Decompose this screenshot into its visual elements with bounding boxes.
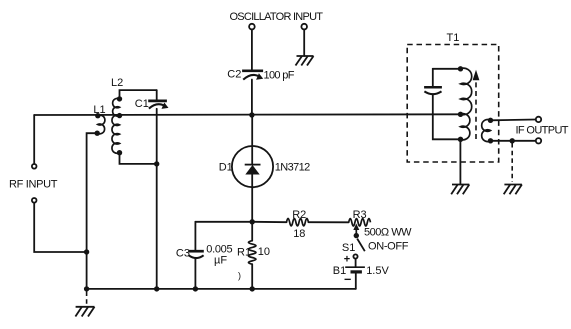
junction L1 top on main line xyxy=(95,113,100,118)
junction T1 primary tap xyxy=(458,112,463,117)
junction ground rail left xyxy=(84,286,89,291)
svg-text:1.5V: 1.5V xyxy=(366,265,389,277)
svg-text:µF: µF xyxy=(214,254,227,266)
ground (oscillator input) xyxy=(296,56,314,66)
junction L1 bottom xyxy=(95,131,100,136)
switch S1 blade xyxy=(357,239,365,252)
wire IF output top xyxy=(491,119,536,122)
wire ground rail bottom xyxy=(87,288,356,290)
diode D1 xyxy=(232,146,273,187)
junction ground rail at C1 branch xyxy=(154,286,159,291)
svg-text:S1: S1 xyxy=(342,242,355,254)
wire C1 top stub xyxy=(156,90,158,100)
wire T1 top horizontal xyxy=(433,68,461,70)
R3 wiper arrow xyxy=(355,228,357,236)
junction T1 primary bottom xyxy=(458,137,463,142)
junction C2 / D1 / main line node xyxy=(249,112,254,117)
svg-text:C3: C3 xyxy=(176,247,190,259)
resistor R3 rheostat xyxy=(349,219,371,227)
wire L2 bottom stub xyxy=(120,153,157,164)
T1 capacitor xyxy=(424,87,442,94)
wire T1 cap branch bottom xyxy=(433,95,461,139)
junction T1 primary top xyxy=(458,66,463,71)
svg-text:R1: R1 xyxy=(237,246,251,258)
svg-text:D1: D1 xyxy=(219,162,233,174)
junction T1 secondary top xyxy=(488,118,493,123)
svg-text:1N3712: 1N3712 xyxy=(275,162,311,174)
svg-text:R3: R3 xyxy=(353,209,367,221)
terminal IF output bottom xyxy=(536,138,541,143)
junction L2 bottom xyxy=(117,150,122,155)
svg-text:18: 18 xyxy=(293,228,305,240)
wire C1 branch lower xyxy=(156,109,158,164)
T1 tuning arrow dashed xyxy=(475,80,477,139)
wire node D1/R2/C3 horizontal xyxy=(195,221,252,223)
wire L2 top stub xyxy=(120,90,157,99)
ground (T1 primary) xyxy=(451,185,469,195)
svg-text:10: 10 xyxy=(258,246,270,258)
svg-text:L1: L1 xyxy=(93,104,105,116)
wire D1 bottom lead xyxy=(251,175,253,222)
wire D1 top lead xyxy=(251,115,253,165)
resistor R2 xyxy=(287,218,309,226)
resistor R1 xyxy=(248,241,256,265)
junction L2 tap on main line xyxy=(117,113,122,118)
svg-text:L2: L2 xyxy=(111,77,123,89)
wire R1 bottom lead xyxy=(251,264,253,289)
junction ground rail at C3 xyxy=(193,286,198,291)
terminal oscillator input ground xyxy=(301,24,307,30)
junction T1 secondary bottom xyxy=(488,138,493,143)
wire RF input top riser xyxy=(33,115,35,163)
wire R1 top lead xyxy=(251,222,253,241)
svg-text:OSCILLATOR INPUT: OSCILLATOR INPUT xyxy=(230,11,324,23)
wire S1 to B1 xyxy=(355,259,357,267)
svg-text:+: + xyxy=(344,254,350,266)
wire T1 cap branch top xyxy=(432,69,434,87)
T1 primary coil xyxy=(461,68,472,140)
junction RF input return xyxy=(84,249,89,254)
svg-text:): ) xyxy=(238,271,241,281)
svg-text:IF OUTPUT: IF OUTPUT xyxy=(516,125,569,137)
svg-text:T1: T1 xyxy=(447,32,460,44)
wire IF output bottom xyxy=(491,140,536,142)
junction IF output ground tie xyxy=(510,138,515,143)
wire L1 bottom to ground rail vertical xyxy=(87,133,98,289)
svg-text:500Ω WW: 500Ω WW xyxy=(364,226,412,238)
wire T1 primary ground lead xyxy=(459,139,461,184)
svg-text:ON-OFF: ON-OFF xyxy=(368,240,409,252)
svg-text:100 pF: 100 pF xyxy=(264,70,295,82)
terminal oscillator input xyxy=(249,24,255,30)
ground (left, chassis via dashed) xyxy=(86,292,88,305)
capacitor C3 xyxy=(189,251,204,258)
wire C1 branch to rail xyxy=(156,164,158,289)
transformer T1 dashed box xyxy=(407,45,499,163)
svg-text:C1: C1 xyxy=(135,98,149,110)
T1 secondary coil xyxy=(482,120,491,142)
junction R3 wiper / S1 node xyxy=(354,233,359,238)
inductor L1 xyxy=(97,115,105,134)
wire oscillator input lead xyxy=(251,30,253,70)
wire oscillator ground lead xyxy=(303,30,305,56)
capacitor C2 xyxy=(242,71,263,80)
capacitor C1 xyxy=(148,101,167,109)
wire main horizontal line RF/L1/L2/C2/T1 node xyxy=(34,113,460,116)
terminal RF input bottom xyxy=(32,198,37,203)
junction D1 anode / R1 / R2 node xyxy=(250,219,255,224)
junction C1 bottom / L2 return xyxy=(154,161,159,166)
svg-text:C2: C2 xyxy=(227,69,241,81)
svg-text:−: − xyxy=(344,273,351,287)
svg-text:R2: R2 xyxy=(292,209,306,221)
junction ground rail at R1 xyxy=(250,286,255,291)
terminal RF input top xyxy=(32,164,37,169)
wire R2 to R3 xyxy=(308,221,348,223)
terminal switch S1 pole xyxy=(353,254,357,258)
wire C2 to main line xyxy=(251,80,253,116)
wire C3 branch lower xyxy=(194,259,196,289)
junction L2 top xyxy=(117,96,122,101)
wire RF input bottom lead xyxy=(34,204,86,253)
terminal IF output top xyxy=(536,117,541,122)
svg-text:RF INPUT: RF INPUT xyxy=(9,179,58,191)
battery B1 xyxy=(345,266,365,268)
inductor L2 xyxy=(112,98,120,153)
ground (IF output, dashed stub) xyxy=(511,143,513,182)
wire B1 to rail xyxy=(355,272,357,289)
wire C3 branch upper xyxy=(194,222,196,251)
